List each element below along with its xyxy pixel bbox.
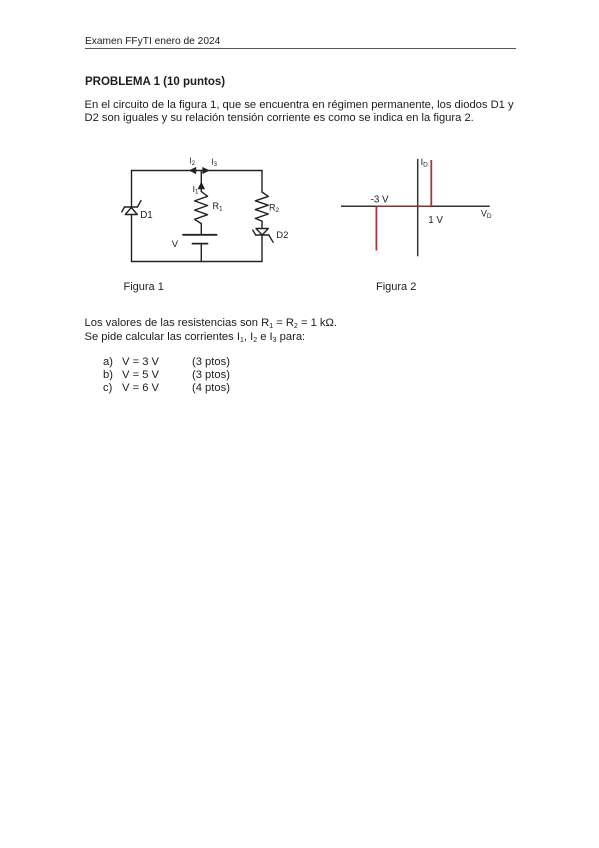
battery V <box>183 235 217 244</box>
current arrow I2 <box>189 167 197 174</box>
wire battery to bottom <box>200 244 202 262</box>
label ID <box>421 157 429 169</box>
wire R1 to battery <box>200 224 202 235</box>
diode curve: zero-current segment (red) <box>376 205 431 207</box>
svg-text:I2: I2 <box>189 156 195 167</box>
svg-text:ID: ID <box>421 157 429 169</box>
svg-text:-3 V: -3 V <box>371 195 389 206</box>
header text <box>85 36 220 47</box>
resistor R2 <box>255 192 268 221</box>
label I3 <box>211 157 217 168</box>
current arrow I1 <box>198 182 205 190</box>
diode D2 (zener) <box>253 229 273 243</box>
paragraph <box>85 99 514 125</box>
list <box>103 356 113 395</box>
label R2 <box>269 202 280 214</box>
svg-text:V: V <box>172 239 179 250</box>
FIGURE 2 : diode I-V characteristic <box>341 159 490 256</box>
label V <box>172 239 179 250</box>
diode curve: zener branch at -3 V (red) <box>375 206 377 250</box>
label I1 <box>193 184 199 195</box>
svg-text:R2: R2 <box>269 202 280 214</box>
label VD <box>481 208 492 220</box>
wire left branch upper <box>131 171 133 208</box>
diode curve: forward branch at 1 V (red) <box>430 160 432 206</box>
axis horizontal VD <box>341 205 490 207</box>
svg-text:D1: D1 <box>140 210 153 221</box>
wire R2 to D2 <box>261 221 263 228</box>
label D1 <box>140 210 153 221</box>
svg-text:1 V: 1 V <box>428 215 443 226</box>
wire right branch upper <box>261 171 263 193</box>
label R1 <box>213 201 224 213</box>
resistor R1 <box>195 192 208 224</box>
wire bottom <box>132 261 263 263</box>
label D2 <box>276 230 288 241</box>
wire middle branch upper <box>200 171 202 192</box>
svg-text:R1: R1 <box>213 201 224 213</box>
header rule <box>85 48 516 49</box>
diode D1 (zener) <box>122 201 141 215</box>
wire top <box>132 170 263 172</box>
captions <box>124 281 164 293</box>
current arrow I3 <box>202 167 209 174</box>
svg-text:VD: VD <box>481 208 492 220</box>
svg-text:D2: D2 <box>276 230 288 241</box>
wire left branch lower <box>131 215 133 262</box>
svg-text:I3: I3 <box>211 157 217 168</box>
body text <box>85 317 338 329</box>
axis vertical ID <box>417 159 419 256</box>
svg-text:I1: I1 <box>193 184 199 195</box>
label -3 V <box>371 195 389 206</box>
label I2 <box>189 156 195 167</box>
label 1 V <box>428 215 443 226</box>
title <box>85 76 225 88</box>
wire D2 to bottom <box>261 235 263 262</box>
